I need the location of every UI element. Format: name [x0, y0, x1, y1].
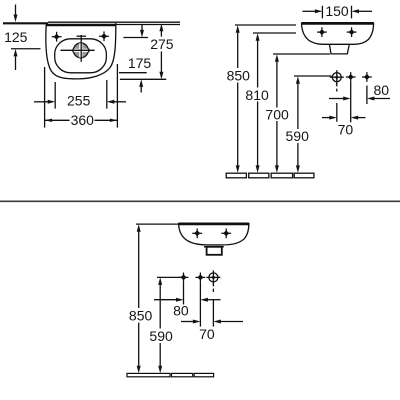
svg-text:810: 810: [245, 87, 269, 103]
svg-text:80: 80: [173, 302, 189, 318]
svg-text:590: 590: [149, 328, 173, 344]
svg-text:70: 70: [338, 122, 354, 138]
svg-text:590: 590: [286, 128, 310, 144]
svg-text:700: 700: [265, 107, 289, 123]
svg-text:360: 360: [71, 112, 95, 128]
svg-text:850: 850: [129, 307, 153, 323]
svg-text:255: 255: [67, 92, 91, 108]
svg-text:150: 150: [325, 3, 349, 19]
svg-text:80: 80: [374, 82, 390, 98]
svg-text:850: 850: [227, 67, 251, 83]
svg-text:70: 70: [199, 326, 215, 342]
svg-text:125: 125: [4, 29, 28, 45]
svg-text:175: 175: [128, 55, 152, 71]
svg-text:275: 275: [150, 36, 174, 52]
